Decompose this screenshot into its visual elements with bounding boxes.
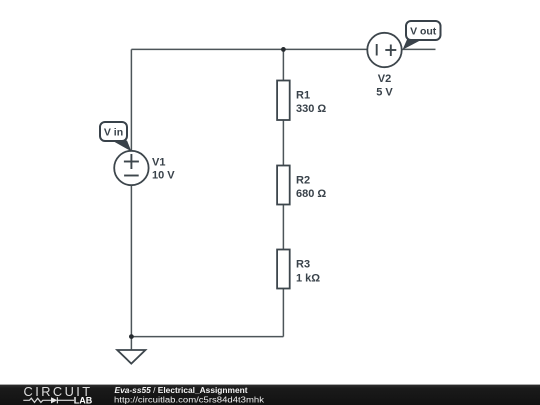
svg-text:V out: V out (410, 26, 437, 38)
svg-text:10 V: 10 V (152, 170, 175, 182)
svg-text:Eva-ss55 / Electrical_Assignme: Eva-ss55 / Electrical_Assignment (115, 386, 248, 395)
svg-text:5 V: 5 V (376, 87, 393, 99)
svg-text:680 Ω: 680 Ω (296, 188, 326, 200)
svg-text:V1: V1 (152, 157, 165, 169)
svg-text:R3: R3 (296, 259, 310, 271)
svg-text:1 kΩ: 1 kΩ (296, 273, 320, 285)
svg-text:V2: V2 (378, 73, 391, 85)
svg-text:LAB: LAB (74, 395, 93, 405)
svg-text:330 Ω: 330 Ω (296, 103, 326, 115)
svg-text:V in: V in (104, 127, 123, 139)
svg-text:R2: R2 (296, 175, 310, 187)
svg-text:R1: R1 (296, 90, 310, 102)
svg-text:http://circuitlab.com/c5rs84d4: http://circuitlab.com/c5rs84d4t3mhk (114, 396, 265, 405)
